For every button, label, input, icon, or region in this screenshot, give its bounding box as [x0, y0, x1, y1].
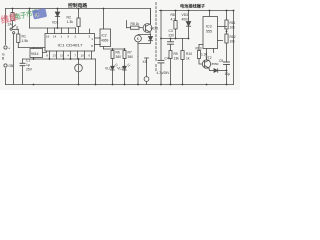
svg-text:16: 16 [46, 35, 50, 39]
jumper bus [30, 27, 76, 29]
svg-text:IC3: IC3 [206, 25, 212, 29]
resistor R10 [182, 39, 184, 51]
bottom rail [6, 84, 234, 86]
IC1 right pin stubs [95, 37, 101, 39]
svg-text:VL2: VL2 [117, 67, 123, 71]
svg-text:4007: 4007 [182, 18, 190, 22]
transistor VT2 [202, 60, 210, 68]
svg-text:R1: R1 [22, 35, 26, 39]
top rail left section [6, 8, 151, 10]
svg-text:10k: 10k [230, 40, 236, 44]
svg-text:1μ: 1μ [26, 63, 30, 67]
right section left wire [160, 11, 162, 61]
svg-text:360: 360 [116, 55, 122, 59]
transistor VT1 [143, 24, 152, 33]
resistor R2 [78, 9, 80, 19]
top rail right section [160, 10, 234, 12]
svg-text:1.5k: 1.5k [22, 39, 29, 43]
svg-text:R9: R9 [174, 52, 178, 56]
section divider dashed [155, 3, 157, 61]
svg-text:555: 555 [206, 30, 212, 34]
battery - terminal [4, 64, 7, 67]
right rail [233, 11, 235, 85]
svg-text:VD3: VD3 [182, 13, 189, 17]
svg-text:控制电路: 控制电路 [68, 2, 87, 9]
svg-text:15: 15 [60, 54, 64, 58]
svg-text:IC1 CD4017: IC1 CD4017 [58, 43, 83, 48]
indicator lamp [75, 64, 83, 72]
oscillator box 9014 [30, 49, 43, 58]
resistor R9 [169, 51, 172, 59]
svg-text:电池接线端子: 电池接线端子 [180, 2, 206, 9]
svg-text:9013: 9013 [151, 27, 159, 31]
svg-text:1k: 1k [186, 57, 190, 61]
wire below switch [13, 34, 15, 85]
svg-text:1.3k: 1.3k [67, 20, 74, 24]
svg-text:14: 14 [53, 35, 57, 39]
resistor R5 [131, 26, 140, 29]
IC1 bottom pin stubs [49, 51, 51, 59]
diode VD3 [188, 11, 190, 22]
fuse FU [11, 13, 14, 21]
svg-text:C4: C4 [165, 57, 169, 61]
svg-text:9014: 9014 [31, 52, 39, 56]
battery + terminal [4, 46, 7, 49]
capacitor C3 [170, 39, 172, 42]
wire clock bus drop [29, 9, 31, 29]
LED VL2 [123, 66, 127, 70]
watermark [0, 5, 47, 26]
svg-text:R11: R11 [230, 21, 236, 25]
resistor R8 [175, 11, 177, 21]
svg-text:R10: R10 [186, 52, 192, 56]
svg-text:220: 220 [169, 34, 175, 38]
capacitor C4 [158, 59, 164, 61]
capacitor C5 [224, 61, 230, 63]
svg-text:10k: 10k [230, 26, 236, 30]
svg-text:4.7μ/25V: 4.7μ/25V [157, 71, 171, 75]
svg-text:C1: C1 [26, 59, 30, 63]
diode VD4 [210, 70, 215, 72]
capacitor C1 [22, 59, 24, 63]
svg-text:25V: 25V [26, 68, 33, 72]
wire [12, 21, 14, 28]
wire fuse column [12, 9, 14, 13]
IC1 top pin stubs [47, 28, 49, 34]
svg-text:R2: R2 [67, 16, 71, 20]
svg-text:360: 360 [128, 55, 134, 59]
svg-text:R8: R8 [171, 13, 175, 17]
freewheel diode VD2 [150, 35, 152, 37]
LED branch bus [104, 48, 125, 50]
svg-text:8550: 8550 [212, 62, 219, 66]
LED VL1 [111, 66, 115, 70]
svg-text:C5: C5 [219, 59, 223, 63]
left rail lower [5, 69, 7, 85]
svg-text:10μ: 10μ [225, 72, 231, 76]
labels [2, 2, 236, 76]
wire lamp column [78, 59, 80, 64]
left rail [5, 9, 7, 45]
wire drop to VT1 collector [150, 9, 152, 24]
svg-text:VL1: VL1 [105, 67, 111, 71]
svg-text:IC2: IC2 [102, 34, 107, 38]
svg-text:VT2: VT2 [206, 56, 212, 60]
bottom bus [23, 58, 96, 60]
relay coil K [135, 35, 142, 42]
svg-text:VD1: VD1 [52, 21, 59, 25]
svg-text:13: 13 [53, 54, 57, 58]
resistor R13 [198, 51, 201, 59]
watermark blue block [32, 8, 47, 20]
IC1 left pin stub [34, 47, 46, 49]
diode VD1 [57, 9, 59, 13]
svg-text:R12: R12 [230, 35, 236, 39]
jack XS [145, 57, 149, 59]
switch S [10, 28, 12, 30]
wire node [18, 47, 33, 49]
svg-text:4069: 4069 [101, 39, 109, 43]
svg-text:13k: 13k [174, 57, 180, 61]
IC2 [100, 29, 111, 47]
svg-text:10: 10 [81, 54, 85, 58]
svg-text:GB: GB [9, 64, 14, 68]
resistor R1 [17, 34, 20, 43]
junction dots [12, 8, 235, 86]
resistor R7 [124, 49, 126, 51]
resistor R12 [225, 34, 228, 43]
IC3 left stub [199, 44, 203, 46]
svg-text:4.3: 4.3 [171, 18, 176, 22]
resistor R6 [112, 49, 114, 51]
svg-text:R6: R6 [116, 51, 120, 55]
svg-text:R13: R13 [196, 47, 202, 51]
IC3 right stubs [218, 26, 227, 28]
IC3 bottom stubs [213, 49, 215, 53]
svg-text:R5 1k: R5 1k [131, 22, 140, 26]
IC3 555 [203, 17, 218, 49]
wire bus drop [95, 59, 97, 85]
resistor R11 [226, 11, 228, 21]
IC1 CD4017 [45, 34, 95, 52]
svg-text:R7: R7 [128, 51, 132, 55]
svg-text:C3: C3 [169, 29, 173, 33]
